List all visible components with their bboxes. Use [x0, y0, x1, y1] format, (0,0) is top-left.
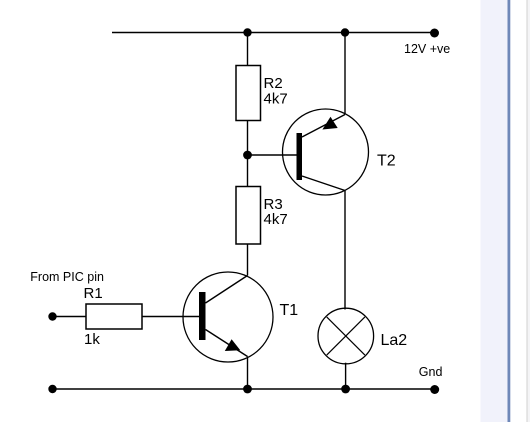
resistor R1 body [86, 304, 142, 329]
right panel edge strip [528, 0, 530, 422]
junction dot ground/lamp [341, 385, 350, 394]
svg-text:4k7: 4k7 [264, 211, 288, 228]
wire: T1 emitter to ground rail [247, 357, 249, 390]
transistor T1 emitter arrow [225, 339, 241, 351]
transistor T2 emitter arrow [322, 117, 337, 130]
wire: node to T2 base [248, 154, 297, 156]
svg-text:12V +ve: 12V +ve [404, 42, 450, 56]
svg-text:Gnd: Gnd [419, 365, 443, 379]
terminal dot ground left [48, 385, 56, 393]
svg-text:R1: R1 [84, 285, 103, 302]
wire: T1 emitter diagonal [206, 330, 248, 357]
svg-text:From PIC pin: From PIC pin [30, 270, 104, 284]
wire: input dot to R1 [53, 316, 87, 318]
right panel blue divider line [508, 0, 511, 422]
wire: R1 to T1 base [142, 316, 199, 318]
junction dot rail/T2 [341, 28, 349, 36]
junction dot ground/T1 [243, 385, 252, 394]
terminal dot PIC input [48, 312, 56, 320]
lamp La2 cross line 2 [327, 317, 365, 355]
wire: T1 collector diagonal [206, 276, 248, 304]
svg-text:T2: T2 [377, 152, 396, 169]
svg-text:4k7: 4k7 [264, 90, 288, 107]
transistor T2 base bar [297, 133, 303, 180]
wire: rail to R2 top [247, 33, 249, 66]
transistor T1 base bar [199, 292, 206, 340]
wire: rail down to T2 emitter [344, 33, 346, 115]
wire: R2 bottom to R3 top [247, 121, 249, 187]
lamp La2 circle [318, 308, 374, 364]
svg-text:La2: La2 [381, 332, 408, 349]
junction dot R2/R3/base node [243, 151, 252, 160]
resistor R3 body [236, 187, 261, 245]
resistor R2 body [236, 66, 261, 121]
wire: +12V top rail [112, 32, 435, 34]
wire: T2 upper diagonal (emitter) [302, 115, 345, 138]
svg-text:T1: T1 [280, 302, 299, 319]
terminal dot ground right [430, 385, 439, 394]
terminal dot 12V [430, 29, 439, 38]
right panel grey line [526, 0, 527, 422]
svg-text:1k: 1k [84, 331, 100, 348]
wire: ground bottom rail [53, 388, 435, 390]
transistor T1 circle [183, 272, 273, 362]
transistor T2 circle [283, 109, 369, 195]
right panel lavender band [481, 0, 508, 422]
wire: T2 collector to lamp [344, 191, 346, 310]
junction dot rail/R2 [243, 28, 251, 36]
lamp La2 cross line 1 [327, 317, 365, 355]
wire: lamp bottom to ground rail [345, 363, 347, 389]
wire: T2 lower diagonal (collector) [302, 176, 345, 191]
wire: R3 bottom to T1 collector [247, 244, 249, 276]
